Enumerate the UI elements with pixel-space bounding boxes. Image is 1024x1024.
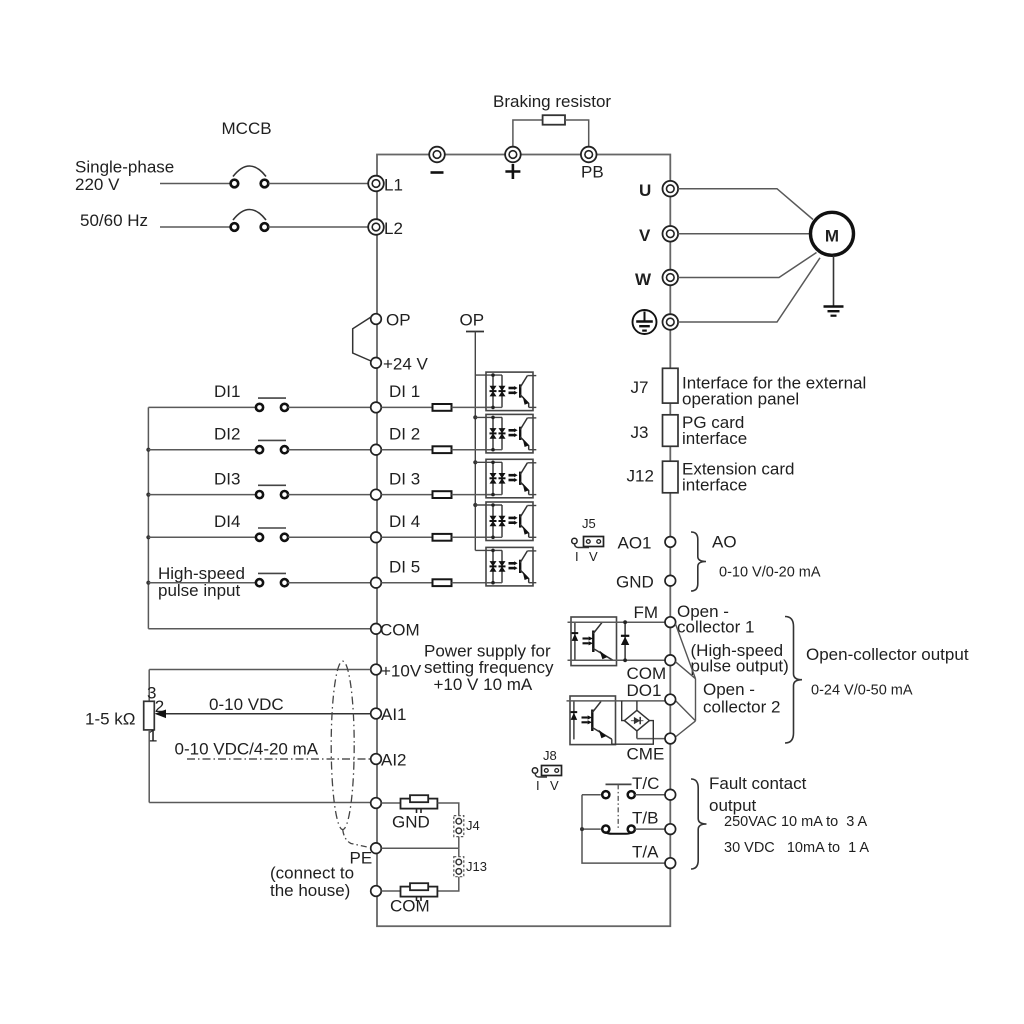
svg-text:J8: J8	[543, 748, 557, 763]
resistor DI5	[433, 579, 452, 586]
earth symbol circled	[633, 310, 657, 334]
terminal DI5	[371, 558, 420, 589]
optocoupler DI1	[475, 372, 536, 411]
svg-text:0-10 VDC/4-20 mA: 0-10 VDC/4-20 mA	[175, 740, 319, 759]
svg-text:AO: AO	[712, 533, 737, 552]
svg-text:V: V	[550, 778, 559, 793]
label interface external operation panel	[682, 374, 866, 409]
wire 50/60Hz to breaker	[160, 226, 230, 228]
switch DI1	[256, 398, 288, 411]
svg-text:50/60 Hz: 50/60 Hz	[80, 211, 148, 230]
label power supply	[424, 642, 554, 695]
relay contact T/B	[602, 826, 635, 834]
wire AI2 dash-dot	[187, 758, 371, 760]
svg-text:0-24 V/0-50 mA: 0-24 V/0-50 mA	[811, 683, 913, 699]
breaker MCCB pole 1	[231, 166, 269, 187]
wire U to motor	[678, 189, 813, 220]
connector J7	[631, 368, 679, 403]
resistor DI2	[433, 446, 452, 453]
svg-text:I: I	[575, 549, 579, 564]
svg-text:operation panel: operation panel	[682, 390, 799, 409]
resistor braking	[543, 115, 565, 125]
optocoupler FM output	[571, 617, 617, 666]
wire resistor to opto DI3	[452, 494, 494, 496]
terminal L1	[368, 176, 403, 195]
terminal T/C	[632, 774, 676, 800]
svg-text:collector 1: collector 1	[677, 618, 754, 637]
wire GND to choke	[381, 802, 400, 804]
wire V to motor	[678, 233, 810, 235]
terminal W	[635, 270, 678, 289]
terminal T/B	[632, 809, 676, 835]
bracket open collector pair	[675, 624, 695, 737]
wire resistor to opto DI1	[452, 406, 494, 408]
terminal DI3	[371, 470, 420, 500]
wire bridge bottom to CME	[636, 731, 638, 739]
wire DI4 row left	[148, 536, 256, 538]
svg-text:MCCB: MCCB	[222, 119, 272, 138]
wire COM row out	[568, 659, 666, 661]
svg-text:I: I	[536, 778, 540, 793]
svg-text:+10 V 10 mA: +10 V 10 mA	[434, 675, 533, 694]
terminal AI1	[371, 705, 407, 724]
svg-text:DI1: DI1	[214, 382, 240, 401]
wire switch to DI3 terminal	[288, 494, 371, 496]
wire COM row	[148, 628, 370, 630]
svg-text:FM: FM	[634, 603, 659, 622]
terminal GND analog	[616, 573, 676, 592]
svg-text:250VAC 10 mA to 3 A: 250VAC 10 mA to 3 A	[724, 814, 868, 830]
svg-text:V: V	[589, 549, 598, 564]
wire switch to DI2 terminal	[288, 449, 371, 451]
terminal DO1	[627, 681, 676, 705]
svg-text:DI 3: DI 3	[389, 470, 420, 489]
svg-text:GND: GND	[392, 813, 430, 832]
svg-text:U: U	[639, 181, 651, 200]
wire pot bottom to loop	[148, 730, 150, 803]
optocoupler DI2	[475, 414, 536, 453]
resistor DI4	[433, 534, 452, 541]
wire switch to DI1 terminal	[288, 406, 371, 408]
resistor DI3	[433, 491, 452, 498]
wire DI4 to resistor	[381, 536, 432, 538]
junction bus DI4	[146, 535, 150, 539]
junction relay T/B	[580, 827, 584, 831]
diode FM clamp	[621, 620, 629, 662]
relay common rail	[582, 795, 665, 863]
wire DI2 to resistor	[381, 449, 432, 451]
optocoupler DI3	[475, 459, 536, 498]
wire DI2 row left	[148, 449, 256, 451]
svg-text:(connect to: (connect to	[270, 864, 354, 883]
wire breaker to L2	[269, 226, 368, 228]
brace fault output	[691, 779, 707, 869]
svg-text:DI4: DI4	[214, 512, 240, 531]
svg-text:J12: J12	[627, 467, 654, 486]
jumper J5	[572, 516, 604, 564]
svg-text:OP: OP	[386, 311, 411, 330]
svg-text:1-5 kΩ: 1-5 kΩ	[85, 710, 136, 729]
switch DI3	[256, 485, 288, 498]
bridge diode DO1	[624, 710, 649, 731]
terminal T/A	[632, 843, 676, 869]
relay linkage	[617, 784, 619, 830]
svg-text:COM: COM	[380, 621, 420, 640]
terminal earth	[663, 314, 679, 330]
terminal COM bottom	[371, 886, 382, 897]
junction OP rail pin4	[473, 503, 477, 507]
wire DI1 row left	[148, 406, 256, 408]
svg-text:+24 V: +24 V	[383, 355, 429, 374]
terminal V	[639, 226, 678, 245]
svg-text:J5: J5	[582, 516, 596, 531]
svg-text:DO1: DO1	[627, 681, 662, 700]
label Open-collector 1	[677, 602, 754, 637]
terminal AO1	[618, 534, 676, 553]
wire COM to choke	[381, 890, 400, 892]
terminal GND filter	[371, 798, 382, 809]
junction bus DI2	[146, 448, 150, 452]
terminal minus	[429, 147, 445, 173]
svg-text:Fault contact: Fault contact	[709, 774, 807, 793]
svg-text:T/A: T/A	[632, 843, 659, 862]
wire earth to motor	[678, 258, 820, 322]
label PG card interface	[682, 413, 747, 448]
svg-text:L2: L2	[384, 219, 403, 238]
svg-text:M: M	[825, 227, 839, 246]
wire W to motor	[678, 253, 816, 278]
label High-speed pulse input	[158, 564, 245, 600]
jumper J13	[454, 857, 487, 877]
svg-text:J7: J7	[631, 378, 649, 397]
wire DI5 row left	[148, 582, 256, 584]
wire CME row	[637, 738, 665, 740]
brace AO	[691, 532, 706, 591]
terminal DI4	[371, 512, 420, 543]
svg-text:0-10 V/0-20 mA: 0-10 V/0-20 mA	[719, 565, 821, 581]
svg-text:V: V	[639, 226, 651, 245]
wire DO1 row	[567, 700, 666, 702]
svg-text:0-10 VDC: 0-10 VDC	[209, 695, 284, 714]
svg-text:the house): the house)	[270, 881, 350, 900]
wire DI3 to resistor	[381, 494, 432, 496]
terminal COM left	[371, 621, 420, 640]
svg-text:Single-phase: Single-phase	[75, 158, 174, 177]
main inverter box	[377, 155, 670, 927]
terminal plus	[505, 147, 521, 179]
svg-text:J4: J4	[466, 818, 480, 833]
wire DO1 drop to bridge	[636, 701, 638, 710]
svg-text:Open -: Open -	[703, 680, 755, 699]
wire T/B to terminal	[635, 828, 665, 830]
label extension card interface	[682, 460, 794, 495]
svg-text:T/B: T/B	[632, 809, 658, 828]
wire J4 to PE row	[458, 837, 460, 849]
svg-text:GND: GND	[616, 573, 654, 592]
resistor DI1	[433, 404, 452, 411]
terminal OP	[371, 311, 411, 330]
terminal +24V	[371, 355, 429, 374]
optocoupler DI4	[475, 502, 536, 541]
jumper J4	[454, 816, 480, 837]
svg-text:pulse output): pulse output)	[691, 657, 789, 676]
label High-speed pulse output	[691, 641, 789, 676]
wire AI1 with wiper arrow	[155, 710, 371, 719]
shield ellipse	[331, 661, 354, 829]
svg-text:DI 5: DI 5	[389, 558, 420, 577]
switch DI5	[256, 573, 288, 586]
junction OP rail pin2	[473, 415, 477, 419]
svg-text:J13: J13	[466, 859, 487, 874]
terminal COM out	[627, 655, 676, 683]
label connect to the house	[270, 864, 354, 901]
relay contact T/C	[602, 784, 635, 798]
wire J13 to COM row	[438, 877, 459, 891]
optocoupler DI5	[475, 547, 536, 586]
wire collector to bridge left	[622, 701, 625, 721]
switch DI2	[256, 440, 288, 453]
switch DI4	[256, 528, 288, 541]
label fault contact output	[709, 774, 807, 815]
wire jumper OP to +24V	[353, 317, 371, 361]
terminal CME	[627, 733, 676, 763]
brace open-collector output	[785, 617, 802, 744]
wire bridge right to emitter	[612, 721, 654, 745]
svg-text:DI2: DI2	[214, 425, 240, 444]
svg-text:T/C: T/C	[632, 774, 659, 793]
terminal FM	[634, 603, 676, 627]
wire PE row	[381, 847, 459, 849]
potentiometer	[144, 684, 165, 746]
breaker MCCB pole 2	[231, 210, 269, 231]
svg-text:AI2: AI2	[381, 751, 407, 770]
wire +10V row	[149, 669, 370, 671]
svg-text:Open-collector output: Open-collector output	[806, 645, 969, 664]
wire DI5 to resistor	[381, 582, 432, 584]
wire FM row	[568, 621, 666, 623]
svg-text:DI 1: DI 1	[389, 382, 420, 401]
optocoupler DO1 output	[570, 696, 616, 745]
node OP internal	[460, 311, 485, 332]
wire +10V to pot top	[148, 670, 150, 702]
terminal DI2	[371, 425, 420, 456]
svg-text:CME: CME	[627, 745, 665, 764]
wire motor to ground	[833, 256, 835, 307]
svg-text:interface: interface	[682, 429, 747, 448]
label Single-phase 220 V	[75, 158, 174, 195]
wire OP rail	[474, 332, 476, 551]
wire loop bottom	[149, 802, 370, 804]
terminal PB	[581, 147, 604, 182]
wire switch to DI5 terminal	[288, 582, 371, 584]
wire resistor to opto DI2	[452, 449, 494, 451]
wire breaker to L1	[269, 183, 368, 185]
wire braking resistor to PB	[565, 120, 589, 147]
svg-text:L1: L1	[384, 176, 403, 195]
svg-text:DI 2: DI 2	[389, 425, 420, 444]
connector J12	[627, 461, 679, 493]
terminal PE	[350, 843, 382, 868]
wire left DI bus	[147, 407, 149, 628]
wire switch to DI4 terminal	[288, 536, 371, 538]
wire choke to J4	[438, 803, 459, 816]
svg-text:DI3: DI3	[214, 470, 240, 489]
svg-text:interface: interface	[682, 476, 747, 495]
svg-text:AI1: AI1	[381, 705, 407, 724]
svg-text:J3: J3	[631, 423, 649, 442]
svg-text:COM: COM	[390, 897, 430, 916]
motor M	[811, 212, 854, 255]
wire PE to J13	[458, 848, 460, 857]
terminal AI2	[371, 751, 407, 770]
wire resistor to opto DI4	[452, 536, 494, 538]
wire DI3 row left	[148, 494, 256, 496]
svg-text:PB: PB	[581, 163, 604, 182]
svg-text:30 VDC 10mA to 1 A: 30 VDC 10mA to 1 A	[724, 840, 869, 856]
wire 220V to breaker	[160, 183, 230, 185]
junction bus DI5	[146, 581, 150, 585]
terminal U	[639, 181, 678, 200]
junction OP rail pin3	[473, 460, 477, 464]
svg-text:output: output	[709, 796, 757, 815]
svg-text:DI 4: DI 4	[389, 512, 420, 531]
terminal +10V	[371, 662, 422, 681]
svg-text:+10V: +10V	[381, 662, 422, 681]
svg-text:OP: OP	[460, 311, 485, 330]
terminal L2	[368, 219, 403, 238]
jumper J8	[532, 748, 561, 793]
svg-text:collector 2: collector 2	[703, 698, 780, 717]
terminal DI1	[371, 382, 420, 413]
wire + to braking resistor	[513, 120, 543, 147]
choke COM	[390, 883, 437, 915]
svg-text:W: W	[635, 270, 652, 289]
wire DI1 to resistor	[381, 406, 432, 408]
svg-text:AO1: AO1	[618, 534, 652, 553]
svg-text:Braking resistor: Braking resistor	[493, 92, 611, 111]
ground motor	[824, 307, 844, 316]
svg-text:220 V: 220 V	[75, 175, 120, 194]
wire T/C to terminal	[635, 794, 665, 796]
wire resistor to opto DI5	[452, 582, 494, 584]
svg-text:pulse input: pulse input	[158, 581, 241, 600]
label Open-collector 2	[703, 680, 780, 717]
choke GND	[392, 795, 437, 831]
connector J3	[631, 415, 679, 447]
junction bus DI3	[146, 493, 150, 497]
wire shield to PE	[343, 830, 370, 848]
